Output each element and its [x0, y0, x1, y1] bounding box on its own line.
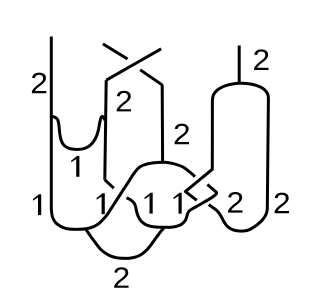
wire middle vertical line — [105, 80, 106, 180]
wire cup clasp between left verticals — [52, 116, 105, 149]
label 1 lower-c — [174, 193, 182, 214]
label 2 lower-a — [228, 192, 242, 213]
wire top crossing over strand — [106, 49, 161, 80]
wire right handle outline with clasp fold — [185, 83, 268, 231]
label 2 bottom — [114, 267, 128, 288]
wire short under segment below middle vertical — [105, 180, 114, 188]
label 1 left-mid — [71, 156, 79, 177]
label 2 mid-left — [117, 91, 131, 112]
wire stub above right handle — [238, 46, 241, 84]
label 1 lower-a — [97, 193, 105, 214]
label 2 lower-b — [275, 193, 289, 214]
wire top crossing under strand NW piece — [103, 44, 128, 59]
label 1 lower-b — [145, 193, 153, 214]
wire clasp strand: chevron bend and small U-dip with under-strand — [127, 185, 217, 228]
wire bottom U handle — [86, 228, 164, 258]
label 1 far-left — [33, 194, 41, 215]
label 2 upper-right — [254, 49, 268, 70]
label 2 upper-left — [32, 73, 46, 94]
wire top crossing under strand SE piece with vertical to dome — [140, 70, 162, 163]
wire left strand: vertical line, U-bottom, over-diagonal, dome, right flank — [51, 37, 195, 230]
label 2 mid — [175, 124, 189, 145]
